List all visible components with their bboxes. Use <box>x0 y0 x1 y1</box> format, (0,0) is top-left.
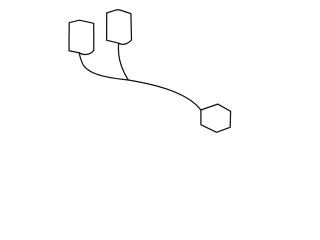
wire from junction to hexagonal component C <box>128 80 201 110</box>
wire from connector B to junction <box>118 43 128 80</box>
hexagonal component C (lower right) <box>201 104 231 132</box>
connector A (left hexagonal plug) <box>69 20 94 54</box>
wire from connector A to junction <box>79 53 128 80</box>
connector B (upper middle hexagonal plug) <box>107 10 132 45</box>
